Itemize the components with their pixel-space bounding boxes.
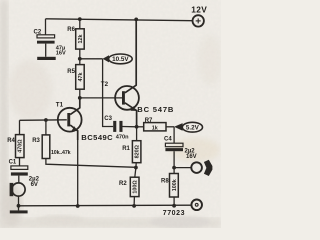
wire R7 to output node bbox=[166, 126, 174, 128]
svg-text:10.5V: 10.5V bbox=[112, 56, 129, 63]
capacitor C1 bbox=[9, 160, 40, 188]
capacitor C4 bbox=[164, 136, 197, 160]
resistor R8 bbox=[161, 174, 178, 198]
svg-text:77023: 77023 bbox=[163, 210, 185, 217]
svg-text:R4: R4 bbox=[7, 138, 15, 144]
svg-text:T2: T2 bbox=[101, 81, 109, 88]
node M junction (bootstrap) bbox=[78, 57, 82, 61]
wire +12V top rail bbox=[46, 19, 193, 21]
node feedback junction bbox=[134, 166, 138, 170]
resistor R7 bbox=[144, 118, 166, 132]
svg-text:1k: 1k bbox=[152, 125, 158, 131]
wire bottom rail 0V bbox=[19, 204, 192, 207]
wire R4 to C1 bbox=[19, 158, 21, 166]
svg-text:16V: 16V bbox=[186, 154, 197, 160]
node rail/T1 emitter bbox=[76, 204, 80, 208]
svg-text:BC549C: BC549C bbox=[81, 133, 113, 142]
svg-text:R3: R3 bbox=[32, 138, 40, 144]
wire R2 to bottom rail bbox=[133, 197, 135, 206]
resistor R3 bbox=[32, 120, 70, 159]
terminal output bbox=[191, 160, 212, 176]
wire output junction to R8 bbox=[173, 168, 175, 174]
wire T1 base bbox=[20, 119, 67, 122]
node T2 emitter junction bbox=[135, 125, 139, 129]
node mic/ground junction bbox=[17, 204, 21, 208]
svg-text:BC 547B: BC 547B bbox=[137, 105, 174, 114]
terminal +12V bbox=[191, 5, 207, 27]
wire down to C4 bbox=[173, 127, 175, 143]
svg-text:C4: C4 bbox=[164, 136, 172, 142]
ground (below C2) bbox=[37, 57, 56, 60]
svg-text:470Ω: 470Ω bbox=[18, 139, 24, 153]
svg-text:12V: 12V bbox=[191, 5, 207, 15]
wire emitter node to R7 bbox=[137, 126, 144, 128]
node rail/R2 bbox=[132, 204, 136, 208]
svg-text:R7: R7 bbox=[145, 118, 153, 124]
wire emitter node to R1 bbox=[136, 127, 138, 141]
svg-text:100k: 100k bbox=[172, 179, 178, 191]
svg-text:5.2V: 5.2V bbox=[186, 125, 200, 132]
node output junction bbox=[172, 166, 176, 170]
svg-text:470n: 470n bbox=[116, 135, 129, 141]
wire R3 to feedback node (crossover at T1 emitter) bbox=[46, 159, 136, 168]
wire rail to R6 bbox=[79, 19, 81, 29]
transistor T2 BC547B bbox=[101, 19, 174, 127]
wire bootstrap vertical to C3 bbox=[103, 59, 114, 127]
resistor R4 bbox=[7, 135, 24, 158]
wire R4 drop bbox=[19, 120, 21, 134]
wire R5 to collector node bbox=[79, 89, 81, 98]
svg-text:16V: 16V bbox=[56, 51, 66, 57]
wire to T2 base bbox=[80, 97, 122, 99]
terminal 0V bbox=[191, 200, 202, 211]
resistor R5 bbox=[67, 65, 84, 90]
svg-text:C2: C2 bbox=[34, 30, 42, 36]
svg-text:R2: R2 bbox=[119, 181, 127, 187]
wire feedback node to R2 bbox=[135, 168, 136, 178]
svg-text:R6: R6 bbox=[67, 27, 75, 33]
wire microphone to bottom rail bbox=[18, 196, 20, 206]
ground (bottom left) bbox=[10, 206, 28, 214]
svg-text:6V: 6V bbox=[31, 182, 38, 188]
resistor R2 bbox=[119, 177, 139, 196]
label 10.5V flag bbox=[103, 54, 133, 64]
wire C1 to microphone bbox=[18, 176, 20, 183]
wire C3 to emitter node bbox=[123, 126, 137, 128]
svg-text:R8: R8 bbox=[161, 178, 169, 184]
node T1 collector / T2 base bbox=[78, 96, 82, 100]
wire R8 to bottom rail bbox=[173, 197, 175, 206]
svg-text:12k: 12k bbox=[78, 35, 84, 44]
svg-text:C1: C1 bbox=[9, 160, 17, 166]
resistor R1 bbox=[122, 141, 141, 163]
paper background bbox=[0, 0, 221, 228]
svg-text:T1: T1 bbox=[56, 102, 64, 109]
wire node M to R5 bbox=[79, 59, 81, 65]
svg-text:R5: R5 bbox=[67, 69, 75, 75]
node junction rail/T2 collector bbox=[134, 18, 138, 22]
label 5.2V flag bbox=[174, 122, 202, 132]
capacitor C3 bbox=[104, 116, 129, 141]
wire C2 drop from rail bbox=[45, 19, 47, 35]
node base/R3 junction bbox=[44, 118, 48, 122]
svg-text:10k..47k: 10k..47k bbox=[51, 150, 71, 156]
capacitor C2 bbox=[34, 30, 67, 57]
wire R6 to node M bbox=[79, 49, 81, 59]
svg-text:100Ω: 100Ω bbox=[133, 180, 139, 194]
wire T1 emitter to bottom rail bbox=[77, 131, 79, 206]
wire node M to 10.5V flag bbox=[80, 58, 103, 60]
wire R1 to feedback node bbox=[135, 163, 137, 168]
node junction rail/R6 bbox=[78, 17, 82, 21]
svg-text:R1: R1 bbox=[122, 146, 130, 152]
wire C4 to output junction bbox=[173, 151, 175, 167]
svg-text:C3: C3 bbox=[104, 116, 112, 122]
microphone bbox=[10, 183, 25, 196]
node rail/R8 bbox=[172, 204, 176, 208]
svg-text:47k: 47k bbox=[78, 73, 84, 82]
transistor T1 BC549C bbox=[56, 98, 113, 142]
wire to output terminal bbox=[174, 167, 191, 169]
resistor R6 bbox=[67, 27, 84, 49]
svg-text:820Ω: 820Ω bbox=[135, 144, 141, 158]
